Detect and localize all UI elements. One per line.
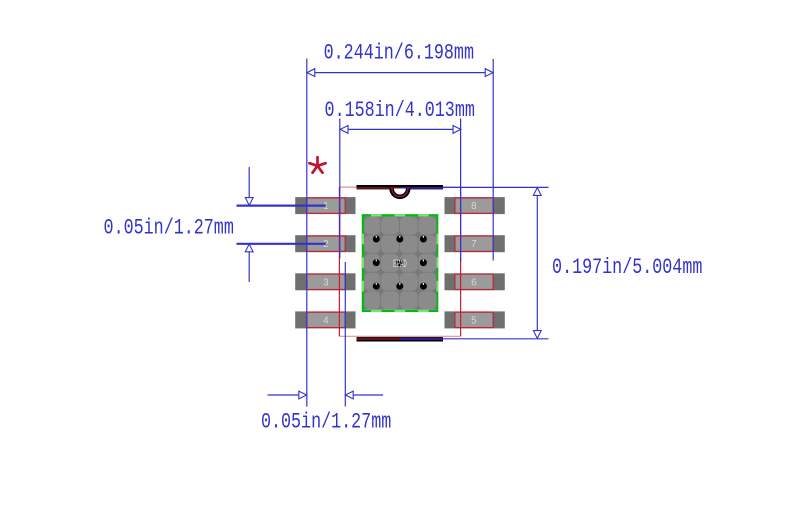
svg-text:0.197in/5.004mm: 0.197in/5.004mm: [552, 255, 702, 280]
arrowheads (open): [245, 69, 541, 399]
svg-text:8: 8: [471, 201, 477, 212]
pad 5 (copper land): [445, 311, 505, 328]
svg-text:6: 6: [471, 277, 477, 288]
via 8: [420, 283, 427, 290]
leader: pad2 centerline: [237, 243, 326, 245]
navy overlay bottom-right: [400, 338, 443, 340]
arrow: bottom dim pointing right: [299, 391, 307, 399]
pin-1 index notch (semicircle): [389, 189, 410, 200]
svg-text:5: 5: [471, 315, 477, 326]
extension line: lead tip left: [306, 59, 308, 407]
lead 2 outline: [307, 236, 345, 251]
extension line: body left: [339, 119, 341, 259]
via 4: [373, 259, 380, 266]
lead 3 outline: [307, 274, 345, 289]
pad 7 (copper land): [445, 235, 505, 252]
svg-text:4: 4: [323, 315, 329, 326]
extension line: body bottom (right dim): [443, 338, 549, 340]
extension line: body right: [460, 119, 462, 263]
pad 4 (copper land): [295, 311, 355, 328]
body top edge bar (black): [357, 185, 444, 189]
lead 1 outline: [307, 198, 345, 213]
arrow: bottom dim pointing left: [345, 391, 353, 399]
navy overlay top-right: [400, 187, 443, 189]
svg-text:0.158in/4.013mm: 0.158in/4.013mm: [325, 98, 475, 123]
pad 2 (copper land): [295, 235, 355, 252]
arrow: body width left: [340, 126, 348, 134]
maroon overlay top-left: [357, 187, 401, 189]
exposed pad (EPAD) copper: [364, 217, 437, 310]
extension line: lead tip right: [492, 59, 494, 261]
via 9 (center): [396, 259, 403, 266]
lead 6 outline: [455, 274, 493, 289]
dim line: bottom 0.05in right segment: [353, 394, 383, 396]
via 3: [420, 236, 427, 243]
arrow: body height down: [533, 331, 541, 339]
pad 1 (copper land): [295, 197, 355, 214]
extension line: body top (right dim): [443, 186, 549, 188]
dim line: pitch lower segment: [248, 252, 250, 282]
svg-text:3: 3: [323, 277, 329, 288]
dim line: body height 0.197in: [536, 195, 538, 330]
dim line: pitch upper segment: [248, 167, 250, 198]
exposed pad courtyard (green): [363, 215, 437, 311]
via 6: [373, 283, 380, 290]
leader: pad1 centerline: [237, 205, 326, 207]
lead 7 outline: [455, 236, 493, 251]
dimension lines (blue): [237, 59, 549, 407]
pad 6 (copper land): [445, 273, 505, 290]
extension line: lead inner edge (bottom dim): [344, 262, 346, 407]
via 5: [420, 259, 427, 266]
svg-text:0.244in/6.198mm: 0.244in/6.198mm: [324, 41, 474, 66]
maroon overlay bottom-left: [357, 338, 401, 340]
package body outline (red): [339, 187, 460, 336]
via 7: [396, 283, 403, 290]
lead 5 outline: [455, 312, 493, 327]
svg-text:EPAD: EPAD: [393, 258, 407, 271]
svg-text:0.05in/1.27mm: 0.05in/1.27mm: [104, 215, 234, 240]
arrow: pitch up: [245, 244, 253, 252]
arrow: overall width left: [307, 69, 315, 77]
pin 1 marker asterisk: [309, 157, 325, 173]
svg-text:7: 7: [471, 239, 477, 250]
lead 4 outline: [307, 312, 345, 327]
dim line: body width 0.158in: [348, 128, 453, 130]
body bottom edge bar (black): [357, 337, 444, 341]
dim line: bottom 0.05in left segment: [268, 394, 300, 396]
via 2: [396, 236, 403, 243]
lead 8 outline: [455, 198, 493, 213]
arrow: body width right: [453, 126, 461, 134]
arrow: overall width right: [485, 69, 493, 77]
arrow: pitch down: [245, 198, 253, 206]
arrow: body height up: [533, 188, 541, 196]
pad 8 (copper land): [445, 197, 505, 214]
pad 3 (copper land): [295, 273, 355, 290]
via 1: [373, 236, 380, 243]
svg-text:0.05in/1.27mm: 0.05in/1.27mm: [261, 410, 391, 435]
dim line: overall width 0.244in: [315, 72, 485, 74]
